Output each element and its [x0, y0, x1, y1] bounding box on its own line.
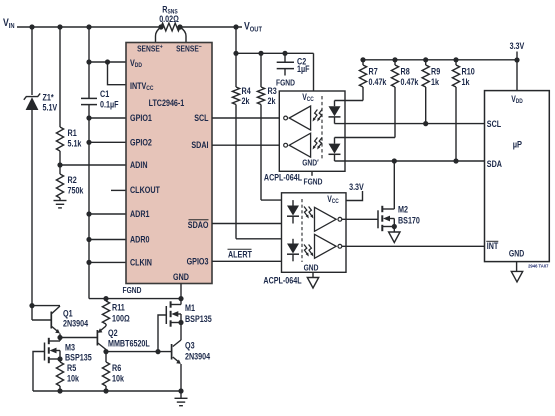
svg-text:1k: 1k: [431, 77, 440, 87]
wire 3.3V rail: [360, 57, 519, 62]
svg-text:ADIN: ADIN: [130, 160, 148, 170]
svg-text:SCL: SCL: [487, 119, 502, 129]
mosfet M2: [378, 161, 420, 232]
ground uP: [511, 271, 522, 282]
svg-text:R5: R5: [67, 363, 76, 373]
svg-text:SCL: SCL: [194, 113, 209, 123]
optocoupler U3 ACPL-064L box: [282, 193, 347, 273]
isolation barrier U2: [321, 96, 323, 159]
isolation barrier U3: [301, 199, 303, 262]
capacitor C1: [81, 62, 119, 118]
svg-text:GND: GND: [509, 248, 524, 258]
light arrows U2 ch1: [313, 110, 322, 122]
ground M2: [389, 232, 400, 243]
node ADIN junction: [57, 151, 62, 174]
svg-text:R4: R4: [242, 86, 252, 96]
ground under R2: [54, 198, 67, 208]
wire R4 to LED2 anode: [236, 238, 293, 240]
wire ADR1: [89, 213, 126, 215]
label U3 ACPL-064L: [263, 276, 301, 286]
wire U2 GND pin: [311, 171, 313, 176]
wire CLKOUT stub: [111, 189, 126, 191]
svg-text:2N3904: 2N3904: [185, 352, 211, 362]
buffer U3 channel 1: [315, 207, 342, 231]
svg-text:ADR0: ADR0: [130, 235, 150, 245]
svg-text:2k: 2k: [268, 96, 277, 106]
wire INTVCC: [108, 62, 127, 85]
wire VIN to Z1: [31, 27, 33, 95]
ground bottom: [175, 391, 188, 406]
svg-text:R8: R8: [401, 67, 410, 77]
svg-text:R7: R7: [369, 67, 378, 77]
wire VDD net: [86, 27, 126, 65]
wire CLKIN: [89, 261, 126, 263]
wire uP VDD: [516, 60, 518, 91]
svg-text:2946 TA07: 2946 TA07: [528, 264, 549, 269]
svg-text:Z1*: Z1*: [43, 93, 55, 103]
IC uP microprocessor: [485, 91, 550, 262]
wire VOUT rail: [233, 27, 313, 56]
wire SCL: [212, 117, 284, 119]
resistor R3: [257, 53, 276, 200]
resistor R8: [391, 60, 419, 138]
svg-text:5.1V: 5.1V: [43, 103, 58, 113]
svg-text:Q1: Q1: [63, 309, 73, 319]
svg-text:ADR1: ADR1: [130, 209, 150, 219]
node Q2 collector junction: [103, 349, 108, 354]
wire Z1 to Q1 node: [29, 303, 34, 320]
svg-text:C1: C1: [100, 89, 109, 99]
wire ADIN: [60, 164, 126, 166]
wire Q2 collector to Q3 base: [106, 349, 172, 354]
node 3.3V (U3): [346, 182, 364, 201]
svg-text:10k: 10k: [67, 374, 80, 384]
svg-text:R2: R2: [68, 175, 77, 185]
mosfet M3: [33, 338, 92, 392]
svg-text:MMBT6520L: MMBT6520L: [108, 339, 150, 349]
svg-text:750k: 750k: [68, 186, 85, 196]
wire bottom rail: [33, 388, 184, 393]
svg-text:CLKIN: CLKIN: [130, 257, 152, 267]
svg-text:µP: µP: [513, 140, 523, 151]
svg-text:BSP135: BSP135: [185, 314, 212, 324]
node VIN: [3, 17, 15, 30]
light arrows U3 ch1: [304, 207, 313, 219]
svg-text:FGND: FGND: [123, 285, 142, 295]
buffer U2 channel 2: [284, 133, 311, 157]
resistor RSNS: [158, 5, 182, 31]
resistor R5: [56, 362, 79, 391]
wire GPIO bus: [86, 115, 91, 298]
wire VIN to R1: [59, 27, 61, 127]
LED U3 ch2: [287, 239, 299, 261]
wire Q2 base: [60, 337, 97, 339]
zener Z1: [24, 93, 58, 306]
svg-text:M1: M1: [185, 303, 195, 313]
svg-text:GPIO1: GPIO1: [130, 113, 152, 123]
wire SENSE- drop: [180, 27, 186, 43]
svg-text:100Ω: 100Ω: [112, 314, 130, 324]
svg-text:Q2: Q2: [108, 328, 118, 338]
svg-text:FGND: FGND: [276, 78, 295, 88]
svg-text:GND: GND: [173, 272, 189, 282]
capacitor C2: [276, 53, 310, 87]
node Q1 emitter junction: [57, 335, 62, 340]
transistor Q1: [32, 306, 89, 338]
resistor R10: [452, 60, 474, 161]
wire SENSE+ drop: [156, 27, 162, 43]
light arrows U2 ch2: [313, 138, 322, 150]
resistor R11: [102, 299, 129, 324]
svg-text:GPIO3: GPIO3: [187, 256, 209, 266]
svg-text:0.1µF: 0.1µF: [100, 100, 119, 110]
net label FGND (IC): [123, 285, 142, 295]
svg-text:GPIO2: GPIO2: [130, 137, 152, 147]
wire ADR0: [89, 239, 126, 241]
svg-text:R11: R11: [112, 303, 125, 313]
svg-text:1µF: 1µF: [297, 64, 310, 74]
resistor R7: [359, 60, 387, 101]
svg-text:SENSE+: SENSE+: [137, 43, 163, 54]
wire SCL uP side: [335, 121, 485, 126]
optocoupler U2 ACPL-064L box: [279, 91, 345, 171]
svg-text:GND′: GND′: [302, 158, 319, 168]
wire RSNS to VOUT: [180, 24, 242, 29]
wire GPIO2: [89, 141, 126, 143]
svg-text:VOUT: VOUT: [244, 21, 262, 34]
resistor R9: [422, 60, 440, 124]
svg-text:R3: R3: [268, 86, 277, 96]
resistor R2: [56, 174, 84, 198]
svg-text:ALERT: ALERT: [228, 250, 252, 260]
light arrows U3 ch2: [304, 245, 313, 257]
net label FGND (U2): [304, 177, 323, 187]
wire uP GND: [516, 262, 518, 272]
wire R8 to LED2 anode: [335, 137, 396, 139]
wire M2 gate: [342, 218, 378, 220]
svg-text:CLKOUT: CLKOUT: [130, 185, 160, 195]
svg-text:R6: R6: [112, 363, 121, 373]
svg-text:R1: R1: [68, 128, 77, 138]
svg-text:M3: M3: [65, 343, 75, 353]
svg-text:BSP135: BSP135: [65, 353, 92, 363]
svg-text:SDA: SDA: [487, 159, 502, 169]
wire R3 to LED1 anode: [261, 199, 293, 201]
wire INT: [342, 245, 485, 247]
svg-text:1k: 1k: [462, 77, 471, 87]
wire U3 GND pin: [312, 272, 314, 277]
resistor R1: [56, 127, 82, 151]
wire SDA uP side: [335, 158, 485, 163]
ground U3: [307, 278, 318, 289]
LED U3 ch1: [287, 200, 299, 223]
buffer U3 channel 2: [315, 234, 342, 258]
svg-text:0.47k: 0.47k: [369, 77, 388, 87]
svg-text:SENSE−: SENSE−: [176, 43, 202, 54]
svg-text:3.3V: 3.3V: [510, 41, 525, 51]
resistor R6: [102, 352, 124, 391]
svg-text:10k: 10k: [112, 374, 125, 384]
transistor Q2: [97, 324, 150, 352]
wire upper ACPL VCC: [313, 53, 315, 91]
svg-text:5.1k: 5.1k: [68, 139, 83, 149]
svg-text:0.47k: 0.47k: [401, 77, 420, 87]
LED U2 ch2: [329, 138, 341, 162]
svg-text:R10: R10: [462, 67, 475, 77]
label U2 ACPL-064L: [264, 173, 302, 183]
node VOUT: [244, 21, 262, 34]
svg-text:ACPL-064L: ACPL-064L: [264, 173, 302, 183]
wire VIN rail: [17, 24, 161, 29]
wire SDAO: [212, 223, 293, 225]
svg-text:2N3904: 2N3904: [63, 319, 89, 329]
LED U2 ch1: [329, 101, 341, 124]
svg-text:Q3: Q3: [185, 341, 195, 351]
svg-text:LTC2946-1: LTC2946-1: [149, 98, 185, 108]
label 2946 TA07: [528, 264, 549, 269]
wire IC GND pin: [180, 284, 182, 299]
IC U1 LTC2946-1: [126, 43, 212, 284]
transistor Q3: [172, 340, 211, 391]
svg-text:2k: 2k: [242, 96, 251, 106]
svg-text:ACPL-064L: ACPL-064L: [263, 276, 301, 286]
svg-text:BS170: BS170: [398, 216, 420, 226]
wire ALERT: [212, 249, 293, 261]
wire R7 to LED1 anode: [335, 100, 364, 102]
svg-text:GND: GND: [304, 262, 319, 272]
wire SDAI: [212, 144, 284, 146]
svg-text:INT: INT: [487, 241, 499, 251]
resistor R4: [232, 53, 251, 239]
svg-text:M2: M2: [398, 205, 408, 215]
svg-text:3.3V: 3.3V: [349, 182, 364, 192]
svg-text:FGND: FGND: [304, 177, 323, 187]
svg-text:R9: R9: [431, 67, 440, 77]
svg-text:0.02Ω: 0.02Ω: [159, 14, 179, 24]
wire FGND rail: [89, 296, 184, 301]
mosfet M1: [158, 299, 212, 352]
svg-text:VIN: VIN: [3, 17, 15, 30]
buffer U2 channel 1: [284, 106, 311, 130]
wire GPIO1: [89, 117, 126, 119]
node 3.3V (top): [510, 41, 525, 60]
svg-text:SDAI: SDAI: [191, 140, 208, 150]
svg-text:SDAO: SDAO: [188, 220, 209, 230]
